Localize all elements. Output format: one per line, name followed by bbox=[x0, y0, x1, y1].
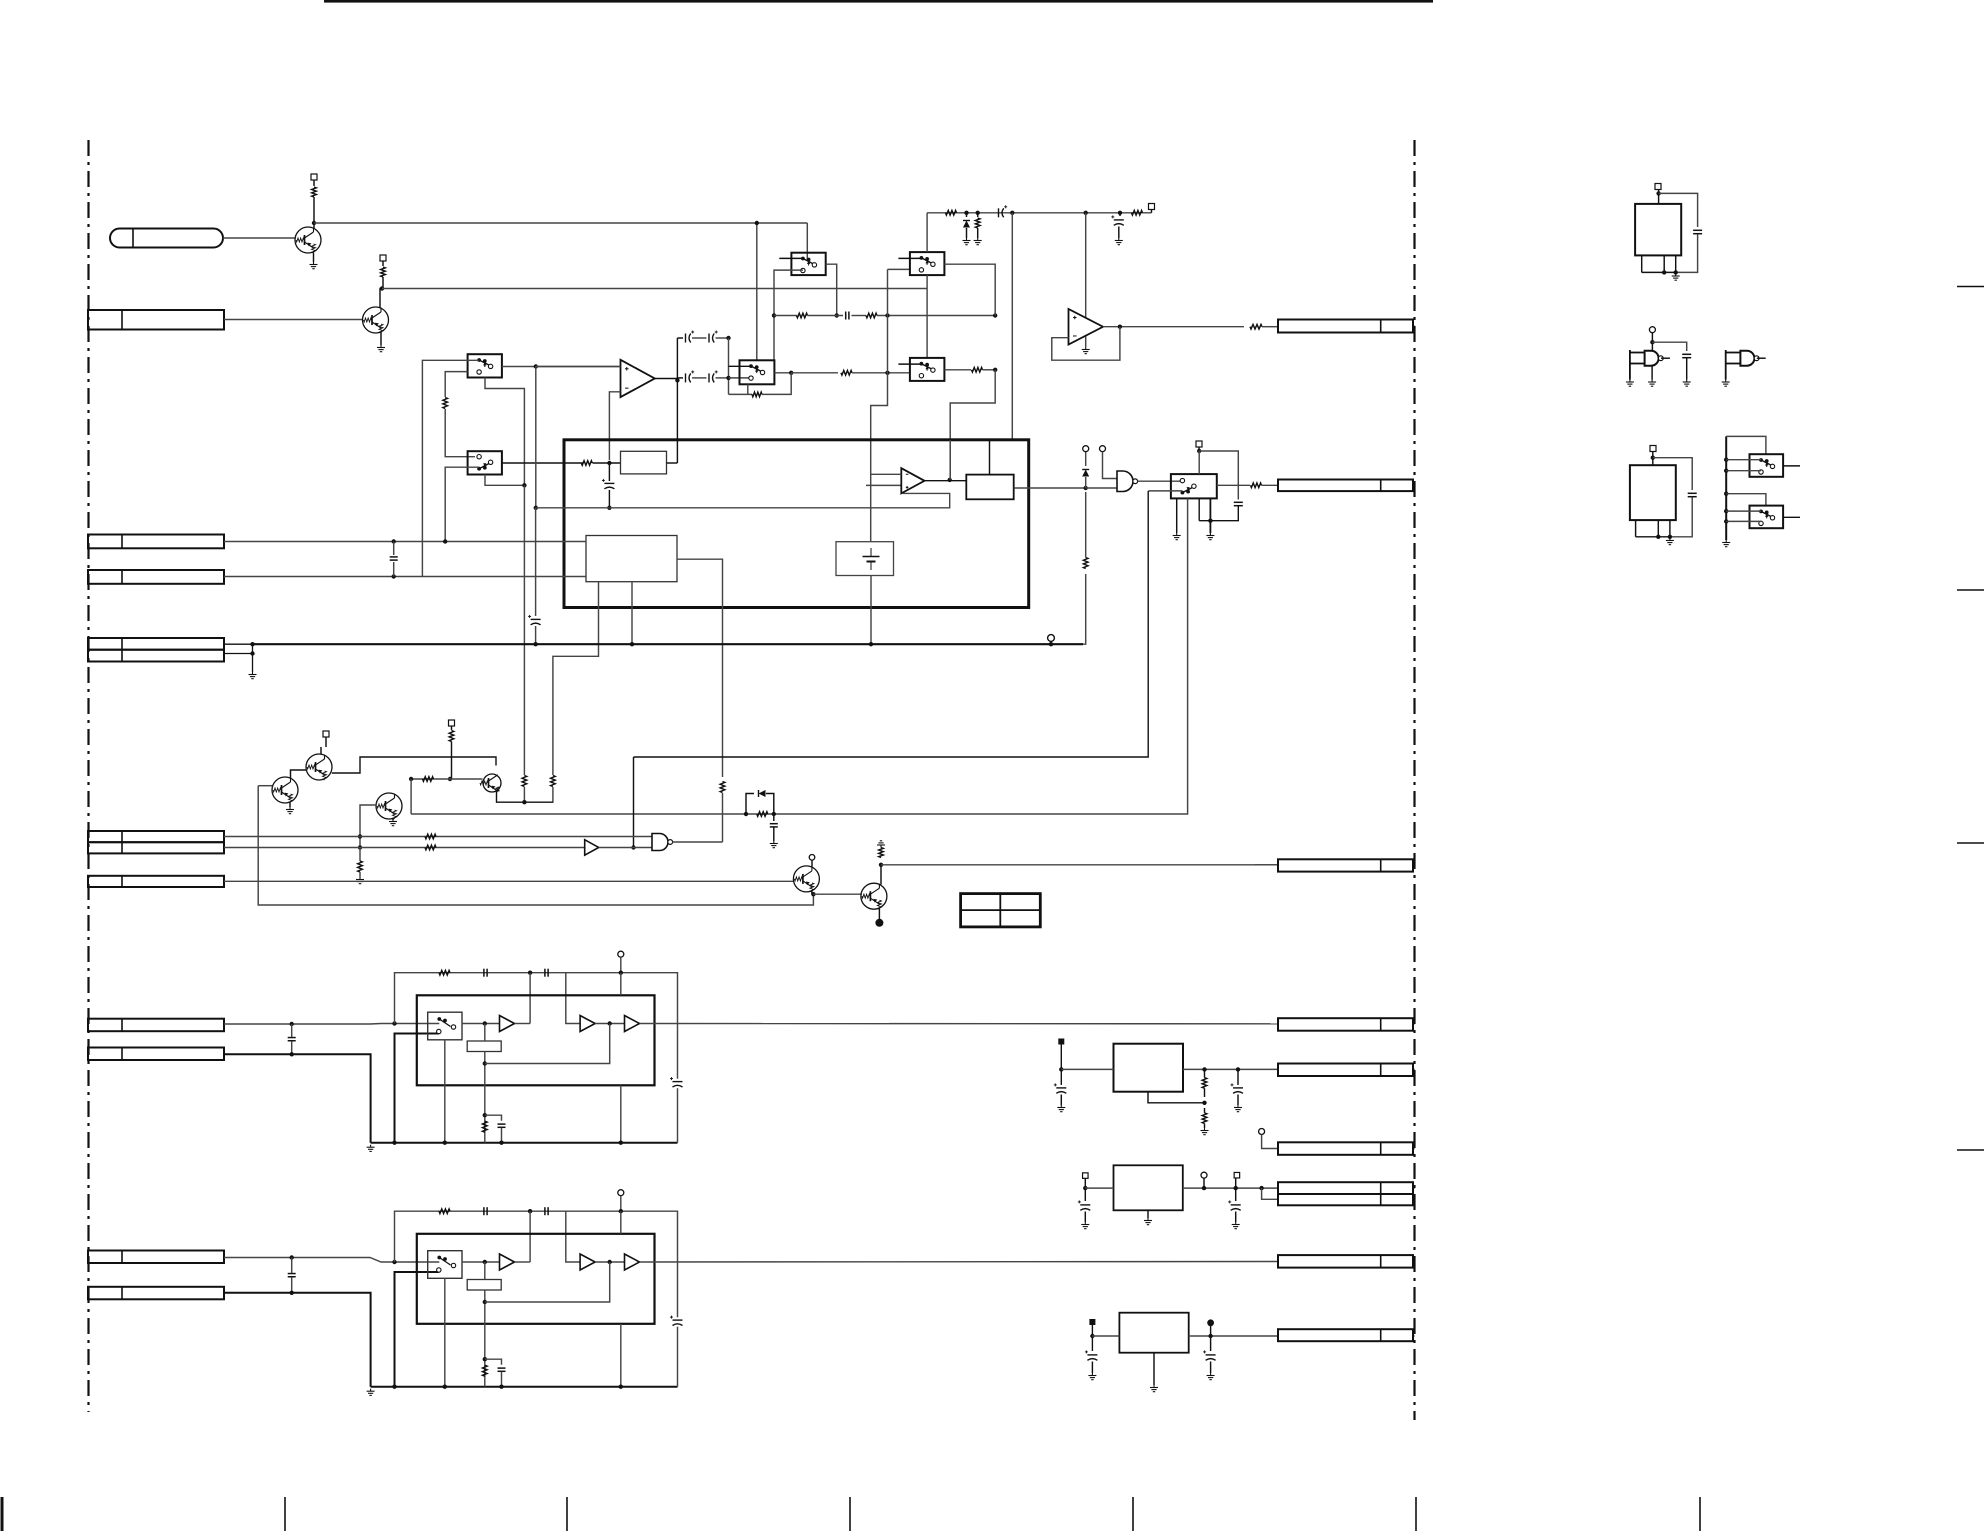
ground C53 bbox=[1084, 1222, 1086, 1225]
wire bbox=[1670, 498, 1692, 537]
wire VCC pin lower bbox=[620, 1324, 622, 1387]
switch box S4 bbox=[740, 360, 775, 384]
battery symbol bbox=[863, 556, 880, 558]
wire bbox=[359, 872, 361, 877]
wire bbox=[728, 338, 730, 394]
wire bbox=[595, 1261, 624, 1263]
wire CN5 row2 bbox=[224, 653, 253, 655]
wire B2 in drop bbox=[566, 973, 580, 1024]
wire U3 -in bbox=[871, 473, 902, 475]
wire bbox=[535, 508, 537, 616]
capacitor C-535 electrolytic bbox=[531, 618, 541, 620]
wire bbox=[1199, 451, 1238, 500]
big dot terminal bbox=[875, 919, 883, 927]
wire CN5 row1 bbox=[224, 643, 253, 645]
wire S4 out row bbox=[791, 372, 838, 374]
wire bbox=[1084, 1212, 1086, 1223]
wire IC4 gnd pin bbox=[1153, 1353, 1155, 1385]
ground C41 bbox=[773, 841, 775, 844]
op-amp U3 bbox=[901, 468, 924, 493]
wire bbox=[1204, 1124, 1206, 1129]
wire fb row bbox=[485, 1024, 610, 1064]
node bbox=[631, 845, 635, 849]
wire bbox=[451, 726, 453, 730]
wire IC2 adj bbox=[1148, 1092, 1205, 1103]
transistor Q3 bbox=[306, 754, 332, 780]
wire bbox=[395, 1261, 440, 1263]
power square for Q2 bbox=[380, 255, 386, 261]
resistor R45 bbox=[425, 845, 436, 850]
wire S1 out bbox=[502, 366, 621, 368]
capacitor C21 bbox=[845, 312, 847, 320]
node bbox=[1010, 211, 1014, 215]
wire Q7 emitter bbox=[811, 891, 813, 894]
wire bbox=[599, 847, 652, 849]
connector CN2 bbox=[88, 310, 224, 330]
node bbox=[993, 368, 997, 372]
right edge alignment marks bbox=[1957, 286, 1984, 288]
wire bbox=[485, 1359, 502, 1365]
wire Q5 emitter bbox=[497, 792, 554, 803]
wire Q1 collector bus bbox=[314, 222, 807, 224]
node bbox=[392, 574, 396, 578]
wire bbox=[1413, 1068, 1415, 1070]
node bbox=[744, 812, 748, 816]
ground C23 bbox=[1118, 238, 1120, 241]
node bbox=[726, 376, 730, 380]
node bbox=[1059, 1067, 1063, 1071]
node bbox=[522, 800, 526, 804]
wire bbox=[313, 180, 315, 186]
wire drop to S3 bbox=[806, 223, 808, 259]
op-amp U2 bbox=[1069, 309, 1104, 345]
node bbox=[885, 371, 889, 375]
terminal TP4 bbox=[809, 855, 815, 861]
wire bbox=[716, 337, 729, 339]
nand gate G2 bbox=[652, 834, 668, 851]
wire bbox=[1686, 359, 1688, 380]
wire U2 feedback bbox=[1052, 327, 1120, 361]
node bbox=[443, 1141, 447, 1145]
switch box S5 bbox=[910, 252, 945, 275]
node bbox=[726, 336, 730, 340]
connector CN-A out bbox=[1278, 1018, 1413, 1030]
resistor R23 bbox=[841, 371, 852, 376]
transistor Q2 bbox=[363, 307, 389, 333]
ground CN5 bbox=[252, 672, 254, 675]
wire IC4 out bbox=[1189, 1335, 1278, 1337]
buffer B3 bbox=[625, 1016, 640, 1032]
resistor R-A1 bbox=[439, 1209, 450, 1214]
wire U1 -in feedback bbox=[609, 392, 620, 460]
capacitor C11 electrolytic bbox=[685, 334, 687, 343]
resistor R-Q2 bbox=[381, 267, 386, 277]
resistor R-S1 bbox=[443, 398, 448, 409]
capacitor C13 electrolytic bbox=[685, 373, 687, 382]
wire VCC pin bbox=[620, 1211, 622, 1234]
terminal TP1 bbox=[1048, 635, 1055, 642]
connector CN4 bbox=[88, 570, 224, 584]
wire S6 out bbox=[944, 369, 971, 371]
wire U3 out bbox=[925, 480, 967, 482]
wire S3 in2 bbox=[774, 270, 803, 360]
node bbox=[483, 1021, 487, 1025]
wire bbox=[1413, 864, 1415, 866]
diode D3 bbox=[759, 790, 766, 797]
buffer B2 bbox=[580, 1016, 595, 1032]
capacitor C12 electrolytic bbox=[708, 334, 710, 343]
node bbox=[1202, 1101, 1206, 1105]
wire CN6 bbox=[224, 836, 652, 838]
resistor R-A2 bbox=[483, 1365, 488, 1376]
wire bbox=[977, 228, 979, 238]
wire bbox=[1092, 1335, 1119, 1337]
electrolytic C54 bbox=[1231, 1204, 1241, 1206]
wire cap row upper bbox=[677, 337, 683, 339]
connector CN-A2 bbox=[88, 1048, 224, 1061]
connector CN3 bbox=[88, 535, 224, 549]
terminal TP3 bbox=[1100, 446, 1106, 452]
wire top route bbox=[395, 973, 678, 1079]
wire in2 black bbox=[224, 1054, 371, 1142]
node bbox=[608, 1260, 612, 1264]
wire bbox=[766, 794, 774, 815]
resistor R-S4fb bbox=[752, 392, 762, 397]
wire bbox=[1198, 447, 1200, 451]
wire S3 out bbox=[826, 264, 837, 315]
IC1 sub-block C bbox=[586, 536, 677, 582]
diode D1 bbox=[963, 221, 970, 228]
node bbox=[443, 1385, 447, 1389]
connector CN-R9 bbox=[1278, 1329, 1413, 1341]
node bbox=[358, 834, 362, 838]
resistor R-Q1 bbox=[312, 187, 317, 197]
electrolytic C53 bbox=[1080, 1204, 1090, 1206]
node bbox=[1656, 191, 1660, 195]
terminal filled square bbox=[1058, 1039, 1064, 1045]
wire bbox=[608, 490, 610, 508]
wire Q6 base bbox=[360, 805, 376, 848]
wire B2 in drop bbox=[566, 1211, 580, 1262]
node bbox=[409, 777, 413, 781]
wire top route bbox=[395, 1211, 678, 1317]
regulator IC3 box bbox=[1114, 1165, 1183, 1210]
ground C62 bbox=[1686, 380, 1688, 383]
diode D2 bbox=[1085, 452, 1087, 466]
resistor R51 bbox=[1202, 1078, 1207, 1089]
node bbox=[607, 506, 611, 510]
node bbox=[619, 1209, 623, 1213]
connector CN-A1 bbox=[88, 1251, 224, 1264]
wire bbox=[1726, 436, 1766, 454]
switch box S8 bbox=[1750, 454, 1784, 477]
switch box S-A bbox=[428, 1012, 462, 1040]
wire G4 out bbox=[1757, 357, 1766, 359]
wire bbox=[729, 377, 752, 379]
connector CN-A out bbox=[1278, 1255, 1413, 1268]
ground opamp bbox=[1085, 347, 1087, 350]
power square for Q1 bbox=[311, 174, 317, 180]
bottom tick marks bbox=[1, 1497, 4, 1531]
node bbox=[522, 483, 526, 487]
wire bbox=[1726, 459, 1761, 461]
capacitor C22 electrolytic bbox=[998, 208, 1000, 217]
ground IC3 bbox=[1147, 1218, 1149, 1221]
ground X2 bbox=[1669, 538, 1671, 541]
wire bbox=[1103, 452, 1118, 479]
wire out bbox=[640, 1023, 1279, 1025]
wire long drop bbox=[1011, 213, 1013, 440]
wire S6 in stub bbox=[898, 363, 921, 365]
wire bbox=[393, 542, 395, 556]
wire bbox=[716, 377, 729, 379]
wire S-A out bbox=[462, 1023, 500, 1025]
wire Q2 collector run bbox=[382, 288, 927, 290]
wire VCC pin bbox=[620, 973, 622, 996]
resistor R41 bbox=[449, 731, 454, 742]
wire sub-block B top pin bbox=[989, 440, 991, 475]
power square PS3 bbox=[1149, 204, 1155, 210]
wire black net 757 bbox=[634, 491, 1149, 757]
regulator IC4 box bbox=[1119, 1313, 1188, 1353]
wire S9 out bbox=[1783, 516, 1800, 518]
capacitor C31 electrolytic bbox=[604, 482, 614, 484]
wire bbox=[445, 409, 475, 457]
wire CN7 bbox=[224, 847, 585, 849]
wire out bbox=[640, 1261, 1279, 1264]
wire T8 row bbox=[881, 864, 1278, 866]
resistor R47 bbox=[757, 812, 768, 817]
resistor R-A1 bbox=[439, 970, 450, 975]
wire bbox=[1659, 193, 1698, 227]
ground C55 bbox=[1091, 1373, 1093, 1376]
wire bbox=[515, 1023, 531, 1025]
wire S2 in2 bbox=[445, 467, 479, 541]
capacitor C61 bbox=[1693, 229, 1702, 231]
node bbox=[534, 506, 538, 510]
ground S7b bbox=[1176, 533, 1178, 536]
wire bbox=[808, 315, 844, 317]
wire bbox=[813, 893, 861, 895]
node S4 out bbox=[789, 371, 793, 375]
node U2 out bbox=[1118, 325, 1122, 329]
wire bus bend bbox=[1083, 574, 1086, 644]
capacitor C-A2 bbox=[483, 969, 485, 977]
capacitor C63 bbox=[1688, 492, 1697, 494]
capacitor C-A5 bbox=[498, 1367, 506, 1369]
wire fb row bbox=[485, 1262, 610, 1302]
wire bbox=[1413, 1187, 1415, 1189]
node bbox=[1118, 211, 1122, 215]
wire bbox=[223, 237, 296, 239]
wire S7 out bbox=[1217, 484, 1250, 486]
wire bbox=[852, 315, 867, 317]
wire bbox=[1726, 494, 1766, 506]
node bbox=[1650, 340, 1654, 344]
ground rail bbox=[370, 1389, 372, 1392]
wire bbox=[811, 860, 813, 867]
node bbox=[1049, 642, 1053, 646]
wire drop to opamp gnd bbox=[1085, 213, 1087, 347]
node bbox=[499, 1141, 503, 1145]
capacitor C-A1 bbox=[288, 1037, 296, 1039]
IC-A box bbox=[417, 995, 655, 1085]
terminal open square bbox=[1083, 1173, 1089, 1179]
node bbox=[392, 1260, 396, 1264]
node bbox=[392, 539, 396, 543]
wire G3 pin bbox=[1651, 366, 1653, 380]
wire y814 bbox=[410, 779, 412, 814]
node bbox=[755, 221, 759, 225]
wire S8 out bbox=[1783, 465, 1800, 467]
wire bbox=[501, 1128, 503, 1143]
wire bbox=[313, 253, 315, 263]
top border bar bbox=[324, 0, 1433, 3]
node bbox=[250, 651, 254, 655]
wire bbox=[677, 1088, 679, 1143]
node bbox=[250, 642, 254, 646]
wire bbox=[1060, 1095, 1062, 1106]
node bbox=[1202, 1186, 1206, 1190]
ground up R48 bbox=[880, 845, 882, 848]
wire bbox=[1091, 1362, 1093, 1374]
switch box S6 bbox=[910, 358, 945, 381]
ground IC4 bbox=[1153, 1385, 1155, 1388]
connector CN-R5 bbox=[1278, 1064, 1413, 1077]
transistor Q1 bbox=[295, 227, 321, 253]
wire CN8 to Q7 bbox=[224, 880, 794, 882]
wire S7 pin4 long bbox=[411, 498, 1188, 814]
wire X2 pins bbox=[1635, 520, 1637, 537]
wire S7 in2 bbox=[1148, 490, 1182, 492]
node bbox=[607, 461, 611, 465]
transistor Q8 bbox=[861, 883, 887, 909]
wire bbox=[291, 1258, 293, 1274]
node bbox=[1724, 492, 1728, 496]
switch box S2 bbox=[468, 451, 502, 474]
wire CN4 bbox=[224, 576, 586, 578]
wire bbox=[676, 338, 678, 463]
node bbox=[948, 478, 952, 482]
capacitor C14 electrolytic bbox=[708, 373, 710, 382]
wire S7 pin bbox=[1198, 498, 1200, 520]
node bbox=[392, 1021, 396, 1025]
node bbox=[290, 1052, 294, 1056]
wire riser 722 bbox=[722, 793, 724, 842]
wire bbox=[773, 828, 775, 842]
ground G3a bbox=[1629, 380, 1631, 383]
wire vertical x535 bbox=[535, 367, 537, 508]
wire to S5 lower pin bbox=[888, 268, 910, 270]
wire G1 out bbox=[1138, 480, 1183, 482]
oscillator X1 box bbox=[1635, 204, 1681, 256]
switch box S7 bbox=[1171, 474, 1217, 498]
wire bbox=[1413, 1148, 1415, 1150]
wire bbox=[291, 1024, 293, 1037]
node bbox=[619, 1141, 623, 1145]
connector CN1 bbox=[110, 229, 223, 248]
buffer B0 bbox=[585, 840, 599, 856]
wire bbox=[252, 644, 254, 672]
wire bbox=[1085, 477, 1087, 488]
transistor Q5 bbox=[483, 774, 501, 792]
wire bbox=[529, 1211, 531, 1262]
resistor R48 bbox=[879, 848, 884, 858]
wire Q4 emitter bbox=[289, 803, 291, 807]
ground G3b bbox=[1651, 380, 1653, 383]
wire Q1 line drop to S4 bbox=[756, 223, 758, 360]
wire S2 out bbox=[502, 462, 583, 464]
sub rect bbox=[467, 1280, 501, 1291]
wire bbox=[325, 737, 327, 747]
node bbox=[1197, 449, 1201, 453]
connector CN-R1 bbox=[1278, 320, 1413, 333]
wire bbox=[380, 332, 382, 345]
electrolytic C55 bbox=[1087, 1354, 1097, 1356]
ground R26 bbox=[977, 238, 979, 241]
wire bbox=[1204, 1069, 1206, 1077]
ground D1 bbox=[966, 238, 968, 241]
resistor R22 bbox=[866, 313, 877, 318]
resistor R-524 bbox=[522, 776, 527, 787]
node bbox=[483, 1300, 487, 1304]
wire bbox=[877, 315, 995, 317]
resistor R-552 bbox=[551, 776, 556, 787]
node bbox=[1084, 211, 1088, 215]
wire bbox=[1726, 510, 1761, 512]
resistor R32 bbox=[1083, 558, 1088, 569]
terminal open square 2 bbox=[1234, 1172, 1240, 1178]
connector CN5 row2 bbox=[88, 650, 224, 662]
op-amp U1 bbox=[621, 360, 655, 397]
wire bbox=[1237, 1095, 1239, 1106]
ground C51 bbox=[1060, 1105, 1062, 1108]
node bbox=[1202, 1067, 1206, 1071]
rail bbox=[371, 1142, 678, 1144]
node bbox=[1090, 1334, 1094, 1338]
ground X1 bbox=[1675, 274, 1677, 277]
connector CN8 bbox=[88, 876, 224, 887]
capacitor C41 bbox=[770, 823, 778, 825]
node bbox=[608, 1021, 612, 1025]
wire in1 bbox=[224, 1257, 292, 1259]
node bbox=[448, 777, 452, 781]
wire power rail bbox=[927, 212, 1151, 214]
node bbox=[1208, 1334, 1212, 1338]
wire S7 pin2 bbox=[1209, 498, 1211, 533]
buffer B1 bbox=[500, 1016, 515, 1032]
wire riser S5out into box bbox=[949, 440, 951, 480]
IC1 main box bbox=[564, 440, 1029, 608]
nand gate G1 bbox=[1117, 471, 1133, 492]
connector CN-A2 bbox=[88, 1287, 224, 1300]
wire drop to nand bbox=[633, 757, 635, 848]
wire bbox=[380, 277, 383, 308]
ground Q4 bbox=[289, 807, 291, 810]
wire bbox=[1235, 1178, 1237, 1201]
wire in2 black bbox=[224, 1293, 371, 1387]
wire bbox=[552, 787, 554, 802]
resistor R27 bbox=[1132, 211, 1143, 216]
terminal filled square 2 bbox=[1089, 1319, 1095, 1325]
node bbox=[964, 211, 968, 215]
regulator IC2 box bbox=[1114, 1044, 1184, 1092]
wire bbox=[292, 1023, 395, 1026]
node bbox=[993, 313, 997, 317]
wire bbox=[977, 213, 979, 217]
wire S2 bottom pin bbox=[485, 475, 524, 486]
wire bbox=[677, 1327, 679, 1387]
